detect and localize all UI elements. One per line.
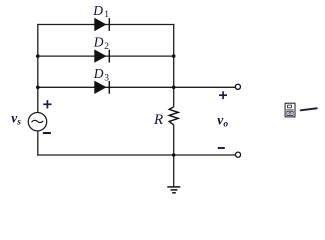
diode D2 xyxy=(94,49,109,62)
svg-text:o: o xyxy=(223,120,228,130)
output plus sign xyxy=(219,91,227,99)
label D2 xyxy=(93,34,109,52)
label D1 xyxy=(92,3,109,20)
label vs xyxy=(11,111,21,128)
terminal top output xyxy=(235,84,240,89)
svg-text:D: D xyxy=(93,34,104,49)
resistor R zigzag xyxy=(169,107,178,125)
svg-text:2: 2 xyxy=(104,42,109,52)
junction dot bottom rail at ground xyxy=(172,153,176,157)
diode D3 xyxy=(94,81,109,94)
output minus sign xyxy=(218,147,225,149)
diode D1 xyxy=(94,18,109,31)
terminal bottom output xyxy=(235,152,240,157)
wire ground stem xyxy=(173,155,175,187)
source minus sign xyxy=(43,132,51,134)
wire left rail upper xyxy=(37,24,39,113)
svg-text:3: 3 xyxy=(104,74,109,84)
wire D2 branch xyxy=(38,55,174,57)
svg-text:1: 1 xyxy=(104,10,109,20)
junction dot right D3 xyxy=(172,86,176,90)
label vo xyxy=(217,112,228,129)
svg-text:D: D xyxy=(92,3,103,18)
wire bottom rail xyxy=(37,154,235,156)
junction dot right D2 xyxy=(172,54,176,58)
label D3 xyxy=(93,66,109,84)
source sine symbol xyxy=(31,120,43,122)
source V1 circle xyxy=(28,113,46,131)
svg-text:s: s xyxy=(16,117,21,127)
wire right rail lower xyxy=(173,125,175,155)
caption character yi (one) xyxy=(301,108,317,110)
junction dot left D2 xyxy=(36,54,40,58)
wire right rail upper xyxy=(173,24,175,107)
junction dot left D3 xyxy=(36,86,40,90)
wire D3 branch and top output lead xyxy=(38,86,235,88)
wire left rail lower xyxy=(37,131,39,156)
svg-text:D: D xyxy=(93,66,104,81)
source plus sign xyxy=(43,100,51,108)
wire top branch D1 row xyxy=(37,24,174,26)
ground symbol xyxy=(167,187,180,193)
caption character tu (figure) xyxy=(285,103,295,117)
svg-text:R: R xyxy=(153,112,163,128)
